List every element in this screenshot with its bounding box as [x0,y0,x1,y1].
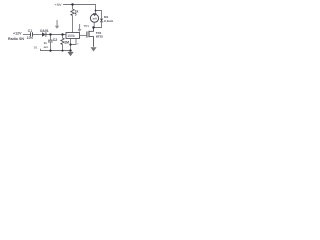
svg-text:+9V: +9V [54,2,62,7]
svg-text:D1: D1 [34,45,38,49]
svg-text:OA91: OA91 [40,29,49,33]
svg-text:TR1: TR1 [84,24,90,28]
svg-text:+12V: +12V [13,32,22,36]
svg-text:0-1mA: 0-1mA [104,19,114,23]
svg-text:5: 5 [75,13,77,17]
svg-text:Radio SN: Radio SN [8,37,24,41]
svg-text:10n: 10n [27,36,33,40]
svg-text:BF25: BF25 [96,35,103,39]
svg-text:mA: mA [93,16,97,20]
svg-text:C1: C1 [28,29,32,33]
svg-text:1M: 1M [64,41,69,45]
svg-text:100k: 100k [67,34,75,38]
svg-text:C2: C2 [53,38,57,42]
